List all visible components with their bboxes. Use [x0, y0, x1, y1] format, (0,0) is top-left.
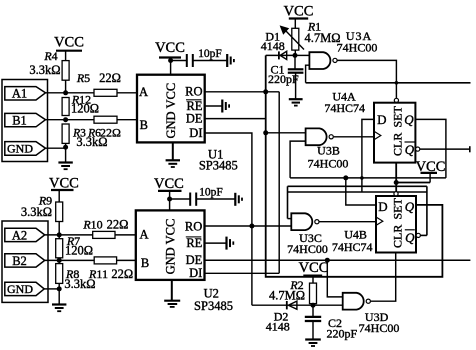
NAND gate U3B 74HC00: [306, 128, 349, 170]
svg-text:GND VCC: GND VCC: [164, 83, 178, 139]
node GND junction: [63, 145, 68, 150]
wire junction to U3A top input: [295, 54, 309, 56]
ground symbol below R3: [58, 163, 72, 170]
connector block 2 (A2/B2/GND): [2, 221, 48, 302]
wire A2 line: [45, 234, 136, 236]
wire U1 DI to lower section: [205, 133, 252, 305]
terminal GND (bottom block): [5, 282, 44, 296]
NAND gate U3C 74HC00: [287, 213, 328, 256]
node L1 / U4A D crossing: [360, 176, 364, 180]
capacitor 10pF (bottom): [170, 186, 236, 206]
resistor R4 3.3k: [29, 49, 69, 80]
NAND gate U3D 74HC00: [343, 293, 400, 335]
svg-text:U3B: U3B: [317, 144, 340, 158]
ground (sideways) at U1 RE: [222, 100, 229, 113]
resistor R12 120ohm: [62, 93, 99, 116]
svg-text:RE: RE: [186, 236, 202, 250]
svg-text:74HC00: 74HC00: [337, 40, 378, 54]
NAND gate U3A 74HC00: [309, 29, 377, 69]
node U3A output crossing top bus: [395, 81, 399, 85]
wire U4A Q down to L1: [415, 119, 446, 177]
wire DE bus down to U3D top input: [327, 260, 342, 297]
resistor R3 3.3k: [62, 124, 107, 149]
terminal B1: [5, 113, 46, 127]
node GND2 junction: [57, 286, 62, 291]
svg-text:D: D: [378, 199, 387, 214]
wire U3A bottom input from top bus: [306, 65, 310, 83]
svg-text:R5: R5: [76, 71, 90, 85]
wire U1 RE to ground: [205, 105, 223, 107]
svg-text:GND: GND: [7, 141, 33, 155]
wire U4A CLR / U4B SET tie-high: [396, 163, 430, 183]
node B1 junction: [63, 117, 68, 122]
wire GND terminal 2: [44, 288, 59, 290]
wire U3C output to U4B clock: [319, 221, 376, 223]
connector block 1 (A1/B1/GND): [2, 80, 48, 162]
svg-text:R10: R10: [82, 218, 102, 232]
resistor R2 4.7M with adjustment arrow: [269, 278, 317, 304]
svg-text:Q: Q: [405, 199, 415, 214]
ground stub below U1: [172, 142, 174, 160]
svg-text:3.3kΩ: 3.3kΩ: [29, 63, 60, 77]
svg-text:VCC: VCC: [155, 40, 185, 56]
wire U2 RE to ground: [205, 242, 227, 244]
svg-text:Q: Q: [405, 142, 415, 157]
svg-text:220pF: 220pF: [268, 72, 299, 86]
wire U3A output to U4A SET: [338, 60, 397, 98]
node R2/D2/C2 junction: [311, 303, 316, 308]
wire U1 DE: [205, 118, 266, 120]
wire U2 DE bus: [205, 259, 471, 261]
terminal GND (top block): [5, 141, 46, 155]
VCC symbol above U2: [154, 176, 184, 210]
ground (sideways) after 10pF bottom: [235, 193, 242, 206]
svg-text:4.7MΩ: 4.7MΩ: [304, 31, 340, 45]
svg-text:VCC: VCC: [284, 4, 314, 20]
svg-text:Q: Q: [404, 112, 414, 127]
node A2 junction: [57, 232, 62, 237]
wire to U3B top input: [266, 132, 306, 134]
wire top bus: [306, 82, 471, 84]
wire A1 line: [46, 92, 138, 94]
svg-text:GND VCC: GND VCC: [163, 219, 177, 275]
node L1 to U4B D: [343, 175, 348, 180]
node A1 junction: [63, 90, 68, 95]
wire B1 line: [46, 119, 138, 121]
ground symbol below C2: [305, 340, 321, 347]
resistor R11 22ohm: [65, 257, 133, 281]
wire R4 to A1 line: [65, 80, 67, 93]
svg-text:A: A: [139, 85, 148, 99]
VCC symbol above U1: [155, 40, 185, 75]
svg-text:RO: RO: [185, 219, 202, 233]
wire B2 line: [45, 259, 136, 261]
wire RO hook down to DE: [278, 92, 280, 273]
VCC symbol middle right: [416, 159, 446, 183]
svg-text:DI: DI: [189, 126, 202, 140]
ground symbol below U1: [166, 160, 180, 167]
IC U2 SP3485 body: [136, 210, 205, 280]
terminal B2: [5, 254, 45, 268]
clock triangle U4A: [374, 131, 381, 139]
svg-text:VCC: VCC: [54, 35, 84, 51]
svg-text:R4: R4: [43, 49, 57, 63]
wire U3C top input: [288, 218, 292, 220]
svg-text:120Ω: 120Ω: [65, 244, 93, 258]
svg-text:4148: 4148: [266, 320, 290, 334]
U4B SET bubble: [394, 192, 398, 196]
svg-text:B: B: [140, 118, 148, 132]
svg-text:DE: DE: [186, 112, 203, 126]
node DI branch to U3B: [263, 130, 268, 135]
U4A Qbar bubble: [416, 147, 420, 151]
svg-text:VCC: VCC: [154, 176, 184, 192]
node B2 junction: [57, 258, 62, 263]
clock triangle U4B: [376, 217, 383, 225]
wire U2 RO to U3C bottom input: [205, 225, 292, 227]
wire U4B Qbar up to feedback: [426, 186, 428, 235]
resistor R6 22ohm: [72, 116, 121, 139]
wire feedback line upper: [288, 185, 427, 187]
svg-text:CLR: CLR: [391, 225, 405, 248]
svg-text:SP3485: SP3485: [199, 159, 238, 173]
node CLR junction: [394, 180, 399, 185]
svg-text:SET: SET: [391, 197, 405, 219]
wire D1/RO/DE vertical to U4B Q feedback: [266, 55, 443, 276]
wire U1 RO: [205, 91, 280, 93]
terminal A2: [5, 228, 45, 242]
svg-text:DI: DI: [189, 266, 202, 280]
svg-text:22Ω: 22Ω: [111, 267, 133, 281]
ground symbol below C1: [289, 99, 303, 105]
svg-text:3.3kΩ: 3.3kΩ: [21, 205, 52, 219]
flip-flop U4A 74HC74 body: [374, 103, 415, 163]
node VCC/cap junction above U1: [168, 58, 173, 63]
node U2 RO junction: [249, 224, 254, 229]
node DE bus to U3D: [325, 258, 330, 263]
resistor R10 22ohm: [82, 218, 128, 239]
capacitor 10pF (top): [171, 48, 228, 67]
svg-text:VCC: VCC: [299, 260, 329, 276]
svg-text:B: B: [141, 256, 149, 270]
U4A SET bubble: [394, 98, 398, 102]
svg-text:RO: RO: [185, 85, 202, 99]
VCC symbol above R1: [284, 4, 314, 29]
svg-text:74HC00: 74HC00: [308, 157, 349, 171]
svg-text:4148: 4148: [261, 39, 285, 53]
wire U2 DI: [205, 272, 280, 274]
ground stub below U2: [171, 280, 173, 301]
svg-text:B2: B2: [12, 254, 27, 268]
svg-text:A2: A2: [12, 228, 27, 242]
wire L1 down to U4B D input: [346, 178, 376, 205]
wire junction to U3D bottom input: [313, 304, 343, 306]
svg-text:220pF: 220pF: [326, 327, 357, 341]
diode D2 4148: [252, 301, 313, 334]
svg-text:74HC00: 74HC00: [287, 242, 328, 256]
resistor R8 3.3k: [56, 264, 96, 291]
svg-text:A: A: [139, 227, 148, 241]
svg-text:SET: SET: [391, 105, 405, 127]
svg-text:10pF: 10pF: [198, 48, 222, 60]
ground symbol below R8: [52, 305, 66, 312]
svg-text:10pF: 10pF: [199, 186, 223, 198]
wire L1 U4A Q line: [290, 177, 446, 179]
node VCC/cap junction above U2: [167, 197, 172, 202]
wire down to U3C top input: [287, 186, 289, 218]
node R1/D1/C1 junction: [293, 53, 298, 58]
flip-flop U4B 74HC74 body: [376, 196, 416, 253]
svg-text:120Ω: 120Ω: [71, 102, 99, 116]
ground symbol below U2: [164, 301, 180, 307]
wire GND terminal to R3 bottom: [46, 147, 66, 149]
svg-text:CLR: CLR: [391, 133, 405, 156]
resistor R7 120ohm: [56, 234, 93, 258]
svg-text:DE: DE: [186, 253, 203, 267]
node RO junction: [263, 89, 268, 94]
svg-text:GND: GND: [7, 282, 33, 296]
svg-text:74HC74: 74HC74: [332, 240, 373, 254]
svg-text:D: D: [377, 112, 386, 127]
svg-text:B1: B1: [12, 113, 27, 127]
VCC symbol top-left: [54, 35, 84, 61]
wire U3B bottom input from L1: [290, 141, 306, 178]
svg-text:Q: Q: [405, 230, 415, 245]
ground (sideways) after 10pF top: [227, 54, 234, 67]
U4B Qbar bubble: [416, 233, 420, 237]
svg-text:3.3kΩ: 3.3kΩ: [64, 277, 95, 291]
wire R3 bottom to ground: [65, 143, 67, 162]
svg-text:74HC74: 74HC74: [324, 101, 365, 115]
svg-text:4.7MΩ: 4.7MΩ: [269, 289, 305, 303]
capacitor C2 220pF: [305, 305, 358, 340]
VCC symbol bottom-left: [49, 175, 79, 202]
IC U1 SP3485 body: [137, 75, 205, 143]
wire feedback line lower: [288, 191, 427, 193]
wire U4A D input: [362, 119, 374, 192]
svg-text:22Ω: 22Ω: [99, 71, 121, 85]
VCC symbol above R2: [299, 260, 329, 283]
resistor R5 22ohm: [76, 71, 121, 96]
svg-text:3.3kΩ: 3.3kΩ: [76, 135, 107, 149]
terminal A1: [5, 87, 46, 101]
wire U3D output to U4B CLR: [371, 253, 396, 302]
svg-text:A1: A1: [12, 87, 27, 101]
svg-text:74HC00: 74HC00: [359, 321, 400, 335]
svg-text:SP3485: SP3485: [194, 299, 233, 313]
wire U4A Qbar output: [420, 148, 470, 150]
ground (sideways) at U2 RE: [227, 237, 234, 250]
wire U3B output to U4A clock: [334, 136, 374, 138]
resistor R9 3.3k: [21, 194, 63, 222]
svg-text:22Ω: 22Ω: [107, 218, 129, 232]
capacitor C1 220pF: [268, 55, 303, 99]
diode D1 4148: [261, 30, 295, 60]
resistor R1 4.7M with adjustment arrow: [280, 20, 341, 51]
